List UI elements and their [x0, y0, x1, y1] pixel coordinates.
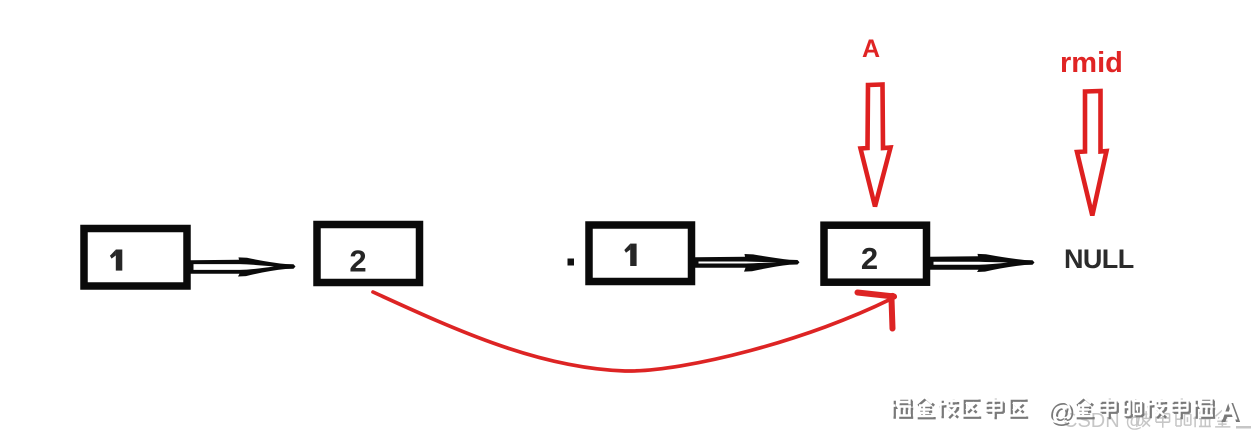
svg-text:A: A [1218, 395, 1238, 426]
svg-text:2: 2 [861, 241, 878, 276]
svg-text:rmid: rmid [1060, 47, 1123, 79]
svg-text:NULL: NULL [1064, 244, 1134, 274]
svg-text:A: A [862, 35, 880, 63]
svg-text:2: 2 [349, 244, 366, 279]
svg-text:@: @ [1047, 396, 1073, 426]
